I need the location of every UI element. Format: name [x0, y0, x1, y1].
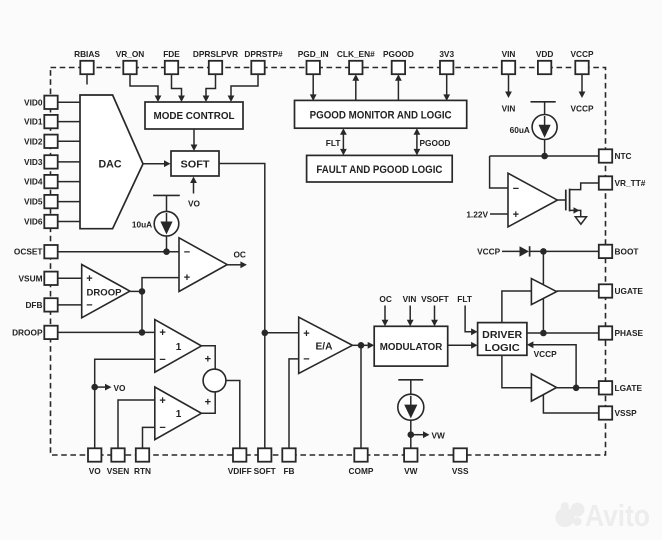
svg-text:VIN: VIN [502, 49, 516, 59]
wire VID4 to DAC [58, 181, 81, 183]
pin BOOT [599, 245, 612, 258]
svg-text:LGATE: LGATE [615, 383, 643, 393]
svg-text:−: − [86, 300, 92, 312]
pin DPRSTP# [251, 61, 264, 74]
junction BOOT [540, 248, 547, 255]
current source VW [398, 394, 424, 420]
svg-text:DROOP: DROOP [87, 287, 123, 298]
svg-text:FDE: FDE [163, 49, 180, 59]
wire VCCP supply arrow [581, 74, 583, 92]
svg-text:VDD: VDD [536, 49, 554, 59]
pin PGD_IN [307, 61, 320, 74]
wire E/A output to COMP pin [360, 345, 362, 448]
svg-text:SOFT: SOFT [181, 159, 211, 171]
svg-text:DPRSLPVR: DPRSLPVR [193, 49, 238, 59]
svg-text:DPRSTP#: DPRSTP# [244, 49, 283, 59]
wire VID3 to DAC [58, 161, 81, 163]
svg-text:VO: VO [114, 383, 127, 393]
wire DROOP node to OC comparator + [142, 278, 179, 333]
svg-text:PHASE: PHASE [615, 328, 644, 338]
wire 10uA source top rail [153, 194, 180, 196]
pin VSEN [111, 448, 124, 461]
svg-text:FLT: FLT [457, 294, 472, 304]
wire UGATE driver rail to PHASE [542, 298, 544, 333]
wire VO tap arrow [95, 386, 107, 388]
svg-text:+: + [86, 273, 92, 285]
pin VCCP [575, 61, 588, 74]
pin DPRSLPVR [209, 61, 222, 74]
svg-text:−: − [184, 246, 190, 258]
wire OC into MODULATOR [384, 306, 386, 322]
wire DROOP pin to gain-1 amp + [58, 331, 155, 333]
svg-text:RBIAS: RBIAS [74, 49, 100, 59]
wire OC comparator output [227, 264, 241, 266]
driver buffer UGATE [531, 279, 556, 305]
op-amp DROOP [82, 265, 130, 318]
svg-text:OC: OC [379, 294, 391, 304]
svg-text:+: + [205, 397, 211, 409]
svg-text:−: − [159, 354, 165, 366]
svg-text:FAULT AND PGOOD LOGIC: FAULT AND PGOOD LOGIC [316, 164, 442, 176]
FAULT AND PGOOD LOGIC block [307, 155, 453, 182]
svg-text:LOGIC: LOGIC [485, 342, 520, 354]
comparator OC [179, 238, 227, 292]
buffer amp gain 1 (lower) [155, 387, 202, 440]
junction PHASE [540, 330, 547, 337]
wire NTC to thermal comparator - [490, 156, 508, 188]
svg-text:Avito: Avito [585, 498, 650, 533]
DAC block [80, 95, 143, 229]
pin VID0 [44, 96, 57, 109]
junction VO tap [91, 384, 98, 391]
svg-text:1.22V: 1.22V [466, 210, 488, 220]
MODULATOR block [374, 326, 448, 366]
pin RTN [136, 448, 149, 461]
pin NTC [599, 149, 612, 162]
svg-text:+: + [205, 354, 211, 366]
pin VO [88, 448, 101, 461]
wire OCSET to comparator inverting input [58, 251, 180, 253]
pin VSUM [44, 272, 57, 285]
wire VO pin to gain-1 amp - [95, 359, 155, 448]
wire gain-1 amp A to summer [201, 346, 215, 369]
wire E/A output [352, 344, 361, 346]
wire VR_ON to MODE CONTROL [130, 74, 158, 97]
svg-text:VR_ON: VR_ON [116, 49, 145, 59]
svg-text:VID1: VID1 [24, 117, 43, 127]
buffer amp gain 1 (upper) [155, 320, 202, 373]
svg-text:VID3: VID3 [24, 157, 43, 167]
pin OCSET [44, 245, 57, 258]
pin 3V3 [440, 61, 453, 74]
svg-text:VDIFF: VDIFF [228, 466, 252, 476]
svg-text:3V3: 3V3 [439, 49, 454, 59]
svg-text:DFB: DFB [25, 300, 42, 310]
PGOOD MONITOR AND LOGIC block [295, 100, 467, 128]
wire FLT into DRIVER LOGIC [465, 306, 472, 332]
wire FB to E/A - [289, 359, 299, 448]
junction OCSET/10uA [163, 248, 170, 255]
current source 10uA [154, 211, 179, 236]
wire MODULATOR to DRIVER LOGIC [448, 344, 473, 346]
svg-text:PGOOD: PGOOD [383, 49, 414, 59]
wire gain-1 amp B to summer [201, 392, 215, 413]
wire PGOOD between logic blocks [416, 132, 418, 151]
wire summer to VDIFF pin [226, 381, 240, 449]
svg-text:VCCP: VCCP [534, 349, 558, 359]
svg-text:MODULATOR: MODULATOR [380, 341, 443, 353]
junction LGATE [573, 385, 580, 392]
svg-text:FLT: FLT [326, 138, 341, 148]
wire VW source top rail [398, 379, 423, 381]
pin VR_ON [123, 61, 136, 74]
wire DFB to DROOP amp - [58, 304, 82, 306]
svg-text:VID0: VID0 [24, 97, 43, 107]
wire DRIVER LOGIC to UGATE driver [502, 291, 532, 323]
pin VID3 [44, 155, 57, 168]
junction VW [408, 431, 415, 438]
error amp E/A [299, 317, 353, 373]
wire 60uA source branch [544, 102, 546, 156]
wire PGOOD MONITOR to CLK_EN# [355, 79, 357, 101]
junction E/A output-COMP [358, 342, 365, 349]
diode bootstrap [520, 246, 530, 256]
svg-text:VID4: VID4 [24, 177, 43, 187]
svg-text:VIN: VIN [403, 294, 417, 304]
driver buffer LGATE [531, 374, 556, 401]
decorative Avito watermark [555, 498, 650, 533]
wire 1.22V reference to comparator + [490, 213, 508, 215]
svg-text:PGOOD: PGOOD [420, 138, 451, 148]
svg-text:+: + [513, 209, 519, 221]
wire VIN into MODULATOR [409, 306, 411, 322]
svg-text:+: + [303, 328, 309, 340]
svg-text:COMP: COMP [349, 466, 374, 476]
pin FB [282, 448, 295, 461]
pin UGATE [599, 284, 612, 297]
wire RTN to gain-1 amp B - [143, 427, 155, 448]
wire DRIVER LOGIC to LGATE driver [502, 355, 532, 388]
junction DROOP pin line [139, 329, 146, 336]
svg-text:60uA: 60uA [510, 125, 530, 135]
svg-text:VCCP: VCCP [570, 49, 594, 59]
svg-text:+: + [159, 395, 165, 407]
wire VSEN to gain-1 amp B + [118, 400, 155, 448]
svg-text:PGD_IN: PGD_IN [298, 49, 329, 59]
pin DFB [44, 298, 57, 311]
wire NTC net [490, 155, 599, 157]
wire VSOFT into MODULATOR [434, 306, 436, 322]
SOFT block [171, 151, 219, 176]
svg-text:VID6: VID6 [24, 217, 43, 227]
pin VSSP [599, 406, 612, 419]
pin PHASE [599, 326, 612, 339]
wire FLT between PGOOD logic blocks [342, 132, 344, 151]
wire FDE to MODE CONTROL [172, 74, 182, 97]
wire 3V3 to PGOOD MONITOR [446, 74, 448, 96]
junction DROOP output [139, 288, 146, 295]
svg-text:BOOT: BOOT [615, 246, 639, 256]
pin LGATE [599, 381, 612, 394]
pin VIN [502, 61, 515, 74]
wire 10uA source branch [166, 195, 168, 251]
MODE CONTROL block [145, 102, 243, 129]
junction NTC [541, 153, 548, 160]
wire PGOOD MONITOR to PGOOD pin [397, 79, 399, 101]
wire 60uA source top rail [531, 101, 556, 103]
svg-text:DRIVER: DRIVER [482, 329, 522, 341]
svg-text:VIN: VIN [502, 104, 516, 114]
svg-text:NTC: NTC [615, 151, 632, 161]
svg-text:VCCP: VCCP [477, 247, 501, 257]
pin VDD [538, 61, 551, 74]
pin CLK_EN# [349, 61, 362, 74]
wire DROOP amp output [130, 290, 142, 292]
pin VID2 [44, 135, 57, 148]
wire boot diode to BOOT pin [530, 250, 599, 252]
wire VID0 to DAC [58, 101, 81, 103]
svg-text:CLK_EN#: CLK_EN# [337, 49, 375, 59]
pin VDIFF [233, 448, 246, 461]
pin DROOP [44, 326, 57, 339]
svg-text:PGOOD MONITOR AND LOGIC: PGOOD MONITOR AND LOGIC [310, 110, 452, 122]
svg-text:SOFT: SOFT [254, 466, 276, 476]
pin COMP [354, 448, 367, 461]
pin PGOOD [392, 61, 405, 74]
pin FDE [165, 61, 178, 74]
svg-text:VSOFT: VSOFT [421, 294, 449, 304]
summing junction [203, 369, 226, 392]
wire DPRSLPVR to MODE CONTROL [206, 74, 216, 97]
wire VID1 to DAC [58, 121, 81, 123]
svg-text:−: − [513, 183, 519, 195]
transistor VR_TT# MOSFET [566, 183, 599, 217]
wire BOOT to UGATE driver rail [542, 251, 544, 284]
svg-text:+: + [159, 327, 165, 339]
wire VW tap arrow [411, 434, 425, 436]
wire PGD_IN to PGOOD MONITOR [312, 74, 314, 96]
svg-text:MODE CONTROL: MODE CONTROL [154, 110, 236, 122]
ground symbol [575, 217, 586, 224]
svg-text:−: − [303, 354, 309, 366]
pin VR_TT# [599, 176, 612, 189]
svg-text:FB: FB [283, 466, 294, 476]
svg-text:VR_TT#: VR_TT# [615, 178, 646, 188]
wire VSSP pin to LGATE driver rail [543, 395, 598, 413]
wire comparator output to MOSFET gate [557, 199, 565, 201]
wire RBIAS stub [86, 74, 88, 84]
pin VW [404, 448, 417, 461]
wire LGATE driver to LGATE pin [557, 387, 599, 389]
svg-text:DAC: DAC [99, 159, 122, 171]
wire VID6 to DAC [58, 221, 81, 223]
DRIVER LOGIC block [478, 323, 527, 356]
current source 60uA [532, 115, 557, 140]
svg-text:RTN: RTN [134, 466, 151, 476]
svg-text:VCCP: VCCP [570, 104, 594, 114]
wire DRIVER LOGIC to PHASE pin [527, 332, 599, 334]
svg-text:VSEN: VSEN [107, 466, 130, 476]
wire VO into SOFT [193, 182, 195, 194]
wire DAC to SOFT [143, 163, 166, 165]
svg-text:DROOP: DROOP [12, 327, 43, 337]
pin RBIAS [80, 61, 93, 74]
wire VID5 to DAC [58, 201, 81, 203]
svg-text:10uA: 10uA [132, 219, 152, 229]
svg-text:−: − [159, 422, 165, 434]
wire VCCP to boot diode [502, 250, 520, 252]
pin SOFT [258, 448, 271, 461]
svg-text:OC: OC [233, 250, 245, 260]
svg-text:VSSP: VSSP [615, 408, 638, 418]
svg-text:1: 1 [176, 342, 182, 353]
wire VID2 to DAC [58, 140, 81, 142]
svg-text:1: 1 [176, 409, 182, 420]
wire E/A output to MODULATOR [361, 344, 369, 346]
svg-text:VW: VW [404, 466, 418, 476]
wire VIN supply arrow [508, 74, 510, 92]
wire MODE CONTROL to SOFT [193, 129, 195, 147]
svg-text:UGATE: UGATE [615, 286, 644, 296]
wire SOFT node to E/A + [265, 332, 299, 334]
chip boundary (dashed) [51, 68, 606, 456]
svg-text:E/A: E/A [316, 342, 333, 353]
pin VSS [454, 448, 467, 461]
svg-text:VSS: VSS [452, 466, 469, 476]
svg-text:VO: VO [89, 466, 102, 476]
wire UGATE driver to UGATE pin [557, 290, 599, 292]
pin VID4 [44, 175, 57, 188]
wire DPRSTP# to MODE CONTROL [231, 74, 258, 97]
pin VID5 [44, 195, 57, 208]
svg-text:OCSET: OCSET [14, 247, 43, 257]
svg-text:VW: VW [432, 431, 446, 441]
wire SOFT output to SOFT pin [219, 164, 265, 449]
pin VID1 [44, 115, 57, 128]
junction SOFT/E-A+ [262, 330, 269, 337]
pin VID6 [44, 215, 57, 228]
svg-text:VSUM: VSUM [19, 273, 43, 283]
wire VW source branch to VW pin [410, 380, 412, 449]
svg-text:VID2: VID2 [24, 136, 43, 146]
wire VCCP sense to DRIVER LOGIC [532, 345, 576, 388]
svg-text:VO: VO [188, 199, 201, 209]
svg-text:VID5: VID5 [24, 197, 43, 207]
wire VSUM to DROOP amp + [58, 277, 82, 279]
svg-text:+: + [184, 272, 190, 284]
comparator thermal 1.22V [508, 173, 557, 227]
